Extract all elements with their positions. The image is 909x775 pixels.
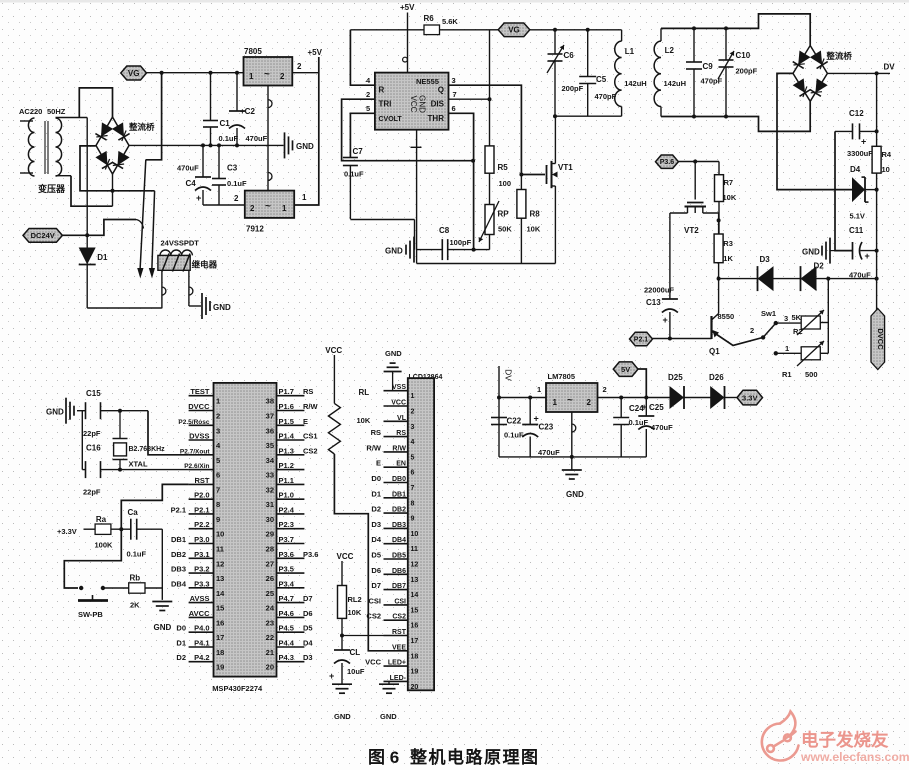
svg-text:C1: C1	[220, 119, 231, 128]
junction VT2 gate feed	[693, 160, 697, 164]
svg-text:MSP430F2274: MSP430F2274	[212, 684, 263, 693]
svg-text:25: 25	[266, 589, 274, 598]
node DC24V tag	[23, 229, 62, 243]
svg-text:Ca: Ca	[128, 508, 139, 517]
diode D3	[758, 266, 774, 291]
wire 7805 ground pin to 7912	[267, 86, 269, 191]
wire LM7805 gnd down	[571, 412, 573, 457]
svg-text:LED+: LED+	[388, 660, 406, 667]
mcu pin 23 P4.6	[277, 616, 305, 618]
svg-text:7912: 7912	[246, 225, 264, 234]
wire VCC to RL2	[341, 561, 343, 586]
svg-text:5.6K: 5.6K	[442, 17, 458, 26]
mcu U5 MSP430F2274 body	[214, 383, 277, 677]
svg-text:200pF: 200pF	[562, 84, 584, 93]
capacitor C25 electrolytic	[645, 398, 647, 417]
svg-text:C4: C4	[186, 179, 197, 188]
svg-text:D1: D1	[371, 489, 381, 498]
svg-text:R3: R3	[723, 239, 733, 248]
svg-text:3: 3	[216, 426, 220, 435]
svg-text:Ra: Ra	[96, 515, 107, 524]
junction C11 DV rail	[875, 249, 879, 253]
lcd pin 11 DB4	[384, 543, 408, 545]
svg-text:28: 28	[266, 545, 274, 554]
svg-text:C25: C25	[649, 403, 664, 412]
inductor L1	[621, 30, 623, 41]
node DVCC vertical tag	[871, 309, 885, 370]
potentiometer R1	[801, 347, 820, 360]
svg-text:DVCC: DVCC	[876, 328, 885, 350]
capacitor C12	[835, 130, 853, 132]
mcu pin 19 P4.2	[189, 661, 214, 663]
transformer T1 primary coil	[20, 120, 33, 122]
svg-text:D7: D7	[371, 581, 381, 590]
lcd pin 17 RST	[384, 635, 408, 637]
svg-text:P4.6: P4.6	[279, 609, 294, 618]
svg-text:+: +	[329, 671, 334, 681]
svg-text:16: 16	[411, 623, 419, 630]
wire C12 left to ground and C11	[835, 131, 853, 250]
mcu pin 33 P1.2	[277, 469, 305, 471]
capacitor C5	[587, 30, 589, 77]
mcu pin 36 P1.5	[277, 424, 305, 426]
resistor Ra	[95, 524, 111, 534]
svg-text:+C2: +C2	[240, 107, 255, 116]
mcu pin 21 P4.4	[277, 646, 305, 648]
svg-text:VCC: VCC	[325, 346, 342, 355]
mcu pin 34 P1.3	[277, 454, 305, 456]
junction C9 top	[692, 26, 696, 30]
svg-text:C13: C13	[646, 298, 661, 307]
svg-text:GND: GND	[385, 349, 402, 358]
lcd pin 2 VCC	[384, 405, 408, 407]
wire VG tank top rail	[530, 29, 622, 31]
capacitor C7	[343, 157, 358, 159]
ground GND mid rail	[284, 132, 286, 158]
svg-text:D2: D2	[176, 653, 186, 662]
svg-text:142uH: 142uH	[664, 79, 687, 88]
svg-text:P1.1: P1.1	[279, 476, 294, 485]
transformer T1 secondary coil	[56, 118, 62, 176]
junction C25 5V	[644, 396, 648, 400]
svg-text:www.elecfans.com: www.elecfans.com	[800, 750, 909, 764]
node VG tag mid	[498, 23, 530, 37]
mcu pin 11 P3.0	[189, 543, 214, 545]
mcu pin 17 P4.0	[189, 631, 214, 633]
svg-text:13: 13	[411, 577, 419, 584]
svg-text:100pF: 100pF	[450, 238, 472, 247]
svg-text:P4.0: P4.0	[194, 624, 209, 633]
mcu pin 16 AVCC	[189, 616, 214, 618]
svg-text:RS: RS	[371, 428, 381, 437]
svg-text:+: +	[642, 402, 647, 412]
capacitor Ca	[130, 519, 132, 540]
svg-text:10K: 10K	[527, 225, 541, 234]
svg-text:DB2: DB2	[392, 507, 406, 514]
mcu pin 32 P1.1	[277, 483, 305, 485]
junction DV	[875, 71, 879, 75]
svg-text:GND: GND	[802, 248, 820, 257]
svg-text:图 6: 图 6	[368, 748, 399, 767]
junction C9 bottom	[692, 115, 696, 119]
svg-text:2: 2	[216, 412, 220, 421]
resistor R5	[485, 146, 494, 173]
svg-text:D2: D2	[814, 262, 825, 271]
wire sw pin3 to R2	[776, 322, 801, 324]
svg-text:16: 16	[216, 618, 224, 627]
svg-text:SW-PB: SW-PB	[78, 610, 103, 619]
svg-text:D7: D7	[303, 594, 313, 603]
timer U3 NE555	[375, 73, 449, 130]
resistor R8	[520, 175, 522, 190]
svg-text:D26: D26	[709, 373, 724, 382]
svg-text:D25: D25	[668, 373, 683, 382]
junction TRI-THR	[471, 159, 475, 163]
svg-text:33: 33	[266, 471, 274, 480]
mcu pin 22 P4.5	[277, 631, 305, 633]
svg-text:DC24V: DC24V	[31, 231, 55, 240]
svg-text:R7: R7	[724, 178, 734, 187]
svg-text:CSI: CSI	[368, 596, 381, 605]
svg-text:D3: D3	[371, 520, 381, 529]
wire reset node to switch	[64, 529, 121, 588]
svg-text:P3.6: P3.6	[660, 159, 675, 166]
svg-text:1: 1	[553, 398, 558, 407]
wire C8 run from ground node	[417, 249, 443, 251]
svg-text:CSI: CSI	[394, 598, 406, 605]
lcd pin 10 DB3	[384, 527, 408, 529]
mcu pin 27 P3.6	[277, 557, 305, 559]
svg-text:4: 4	[411, 439, 415, 446]
wire relay contact lever 2	[152, 191, 155, 271]
wire 3.3V to Ra	[84, 528, 96, 530]
svg-text:10K: 10K	[357, 416, 371, 425]
svg-text:1: 1	[282, 204, 287, 213]
capacitor C22	[491, 417, 507, 419]
svg-text:P1.0: P1.0	[279, 491, 294, 500]
diode D1	[86, 146, 88, 249]
wire relay coil left lead to D1 net	[161, 270, 163, 308]
svg-text:+3.3V: +3.3V	[57, 527, 77, 536]
svg-text:0.1uF: 0.1uF	[219, 134, 239, 143]
svg-text:C5: C5	[596, 75, 607, 84]
junction C12 DV rail	[875, 129, 879, 133]
svg-text:10: 10	[882, 165, 890, 174]
mcu pin 7 RST	[189, 483, 214, 485]
junction C5 top	[586, 28, 590, 32]
svg-text:6: 6	[452, 104, 456, 113]
mcu pin 35 P1.4	[277, 439, 305, 441]
svg-text:C9: C9	[703, 62, 714, 71]
wire relay coil right lead to ground	[188, 270, 190, 306]
junction gate R8	[519, 173, 523, 177]
wire relay contact feed from VG rail	[146, 73, 162, 160]
svg-text:P2.4: P2.4	[279, 505, 295, 514]
svg-text:EN: EN	[396, 461, 406, 468]
svg-text:30: 30	[266, 515, 274, 524]
svg-text:P3.0: P3.0	[194, 535, 209, 544]
lcd pin 8 DB1	[384, 497, 408, 499]
svg-text:+: +	[663, 315, 668, 325]
svg-text:D4: D4	[850, 165, 861, 174]
zener diode D4	[852, 177, 865, 202]
svg-text:R/W: R/W	[303, 402, 319, 411]
svg-text:P4.3: P4.3	[279, 653, 294, 662]
svg-text:2: 2	[250, 204, 255, 213]
wire R5 to RP	[489, 173, 491, 204]
svg-text:CVOLT: CVOLT	[379, 116, 403, 123]
svg-text:36: 36	[266, 426, 274, 435]
svg-text:P4.2: P4.2	[194, 653, 209, 662]
svg-text:DIS: DIS	[431, 100, 445, 109]
svg-text:XTAL: XTAL	[129, 460, 148, 469]
wire switch to Rb	[103, 587, 129, 589]
mcu pin 15 AVSS	[189, 602, 214, 604]
junction crystal bottom	[118, 468, 122, 472]
svg-text:23: 23	[266, 618, 274, 627]
junction switch rail	[826, 277, 830, 281]
svg-text:+: +	[861, 137, 866, 147]
wire 555 gnd pin down	[416, 130, 418, 264]
inductor L2	[660, 28, 662, 41]
wire 555 pin4 to top rail	[350, 30, 375, 85]
wire transformer bottom to bridge bottom net	[71, 176, 113, 207]
svg-text:470uF: 470uF	[538, 448, 560, 457]
svg-text:VG: VG	[508, 26, 520, 35]
svg-text:C11: C11	[849, 226, 864, 235]
svg-text:D0: D0	[371, 474, 381, 483]
svg-text:P1.6: P1.6	[279, 402, 294, 411]
junction C10 top	[724, 26, 728, 30]
lcd U6 LCD12864 body	[408, 378, 434, 690]
svg-text:P2.5/Rosc: P2.5/Rosc	[178, 419, 209, 426]
svg-text:D1: D1	[176, 639, 186, 648]
mcu pin 14 P3.3	[189, 587, 214, 589]
svg-text:470uF: 470uF	[246, 134, 268, 143]
wire +5V rail down to 7912 pin1	[294, 57, 319, 205]
junction bridge1 bottom on loop	[111, 189, 115, 193]
lcd pin 4 RS	[384, 436, 408, 438]
svg-text:P3.3: P3.3	[194, 579, 209, 588]
mcu pin 6 P2.6/Xin	[189, 469, 214, 471]
mcu pin 29 P2.3	[277, 528, 305, 530]
svg-text:35: 35	[266, 441, 274, 450]
transistor VT1 mosfet	[546, 165, 548, 184]
svg-text:C12: C12	[849, 109, 864, 118]
wire 555 pin3 Q to gate	[449, 85, 546, 174]
junction mid rail C4	[201, 143, 205, 147]
svg-text:8: 8	[216, 500, 220, 509]
mcu pin 10 P2.2	[189, 528, 214, 530]
svg-text:3: 3	[411, 424, 415, 431]
crystal X1	[119, 411, 121, 439]
svg-text:10K: 10K	[348, 608, 362, 617]
svg-text:R6: R6	[424, 14, 435, 23]
lcd pin 1 VSS	[384, 390, 408, 392]
wire Ra to Ca junction	[111, 528, 131, 530]
svg-text:Q1: Q1	[709, 347, 720, 356]
lcd pin 7 DB0	[384, 482, 408, 484]
mcu pin 24 P4.7	[277, 602, 305, 604]
mcu pin 2 DVCC	[189, 410, 214, 412]
junction VG rail C1	[209, 71, 213, 75]
svg-text:17: 17	[411, 638, 419, 645]
junction gnd bottom rail	[570, 455, 574, 459]
svg-text:470uF: 470uF	[651, 423, 673, 432]
svg-text:GND: GND	[418, 95, 427, 113]
svg-text:电子发烧友: 电子发烧友	[801, 730, 889, 750]
svg-text:DV: DV	[504, 369, 514, 381]
svg-text:E: E	[303, 417, 308, 426]
svg-text:P2.1: P2.1	[194, 505, 209, 514]
svg-text:P2.1: P2.1	[634, 337, 649, 344]
node 3.3V tag	[737, 390, 763, 405]
wire bridge2 to DV	[827, 72, 890, 74]
svg-text:P2.2: P2.2	[194, 520, 209, 529]
svg-text:19: 19	[216, 663, 224, 672]
wire VCC to RL	[333, 355, 335, 403]
svg-text:VG: VG	[128, 69, 140, 78]
svg-text:DB3: DB3	[392, 522, 406, 529]
transformer core	[44, 121, 46, 174]
wire C7 bottom to ground node	[350, 219, 414, 221]
resistor R6	[424, 25, 440, 35]
wire gnd branch to C16	[81, 411, 83, 470]
svg-text:5: 5	[216, 456, 220, 465]
mcu pin 28 P3.7	[277, 543, 305, 545]
svg-text:2K: 2K	[130, 601, 140, 610]
resistor Rb	[129, 583, 145, 593]
svg-text:C6: C6	[564, 51, 575, 60]
svg-text:C3: C3	[227, 164, 238, 173]
capacitor C16 on xin wire	[82, 469, 85, 471]
svg-text:7: 7	[411, 485, 415, 492]
svg-text:470uF: 470uF	[177, 164, 199, 173]
svg-text:22000uF: 22000uF	[644, 286, 674, 295]
wire 555 pin7 DIS right	[449, 98, 490, 100]
regulator U1 7805	[244, 57, 293, 86]
ground GND dv	[829, 238, 831, 264]
svg-text:VCC: VCC	[391, 400, 406, 407]
junction tank bottom drain	[553, 114, 557, 118]
svg-text:AC220: AC220	[19, 107, 42, 116]
svg-text:DB4: DB4	[171, 579, 187, 588]
svg-text:2: 2	[280, 72, 285, 81]
svg-text:P4.7: P4.7	[279, 594, 294, 603]
diode D25	[670, 386, 685, 409]
capacitor C6 variable	[554, 30, 556, 54]
wire gate feed down	[694, 162, 696, 200]
wire DV branch down	[498, 366, 500, 457]
svg-text:LED-: LED-	[390, 675, 407, 682]
wire 7805 output to +5V	[292, 72, 319, 74]
node P3.6 tag	[656, 155, 679, 168]
svg-text:GND: GND	[334, 712, 351, 721]
svg-text:TRI: TRI	[379, 100, 392, 109]
svg-text:DB4: DB4	[392, 537, 406, 544]
wire bridge1 top to transformer top	[79, 88, 112, 118]
wire 555 pin5 CVOLT to C7	[350, 113, 375, 157]
svg-text:NE555: NE555	[416, 77, 439, 86]
wire DV rail down	[876, 73, 878, 146]
svg-text:9: 9	[216, 515, 220, 524]
svg-text:38: 38	[266, 397, 274, 406]
svg-text:变压器: 变压器	[38, 183, 66, 194]
wire VT1 drain up to tank	[554, 116, 556, 163]
svg-text:C22: C22	[507, 417, 522, 426]
mcu pin 4 DVSS	[189, 439, 214, 441]
svg-text:R1: R1	[782, 370, 792, 379]
svg-text:整流桥: 整流桥	[129, 122, 155, 132]
resistor R3	[714, 234, 723, 263]
svg-text:0.1uF: 0.1uF	[344, 170, 364, 179]
junction C10 bottom	[724, 115, 728, 119]
svg-text:5: 5	[366, 104, 370, 113]
svg-text:6: 6	[216, 471, 220, 480]
svg-text:1: 1	[302, 193, 307, 202]
wire D26 to 3.3V tag	[724, 397, 737, 399]
regulator U4 LM7805	[546, 383, 598, 412]
svg-text:P1.5: P1.5	[279, 417, 294, 426]
mcu pin 25 P3.4	[277, 587, 305, 589]
svg-text:24VSSPDT: 24VSSPDT	[161, 239, 200, 248]
svg-text:12: 12	[411, 562, 419, 569]
svg-text:RST: RST	[195, 476, 210, 485]
svg-text:VCC: VCC	[365, 658, 381, 667]
wire +5V down to NE555 vcc	[407, 13, 409, 73]
svg-text:~: ~	[567, 395, 573, 406]
svg-text:DB3: DB3	[171, 565, 186, 574]
svg-text:P2.0: P2.0	[194, 491, 209, 500]
svg-text:Sw1: Sw1	[761, 309, 776, 318]
wire switch rail down	[827, 279, 829, 354]
wire bridge2 left down to D4	[777, 73, 854, 189]
svg-text:C16: C16	[86, 444, 101, 453]
mcu pin 1 TEST	[189, 395, 214, 397]
svg-text:R/W: R/W	[392, 445, 406, 452]
svg-text:P4.1: P4.1	[194, 639, 209, 648]
svg-text:9: 9	[411, 516, 415, 523]
svg-text:5.1V: 5.1V	[850, 212, 865, 221]
svg-text:VEE: VEE	[392, 644, 406, 651]
wire 555 pin2 TRI loop	[342, 99, 474, 161]
resistor R4 on DV rail	[872, 146, 881, 173]
wire Ca to gnd vertical	[137, 528, 163, 530]
lcd pin 12 DB5	[384, 558, 408, 560]
wire transformer top node to D1 branch	[86, 118, 88, 146]
wire sw pin1 to R1	[776, 352, 801, 354]
capacitor C11 electrolytic	[852, 242, 854, 260]
svg-text:VCC: VCC	[337, 552, 354, 561]
svg-text:500: 500	[805, 370, 818, 379]
potentiometer R2	[801, 316, 820, 329]
lcd pin 14 DB7	[384, 589, 408, 591]
svg-text:DB1: DB1	[171, 535, 186, 544]
capacitor C23 electrolytic	[529, 398, 531, 425]
svg-text:P3.2: P3.2	[194, 565, 209, 574]
svg-text:D3: D3	[760, 255, 771, 264]
wire tank bottom	[555, 115, 622, 117]
svg-text:R5: R5	[498, 163, 509, 172]
node P2.1 tag	[630, 332, 653, 346]
svg-text:8: 8	[411, 500, 415, 507]
svg-text:+: +	[865, 251, 870, 261]
svg-text:10uF: 10uF	[347, 667, 365, 676]
svg-text:P1.4: P1.4	[279, 432, 295, 441]
junction reset node	[119, 527, 123, 531]
mcu pin 12 P3.1	[189, 557, 214, 559]
svg-text:P2.3: P2.3	[279, 520, 294, 529]
